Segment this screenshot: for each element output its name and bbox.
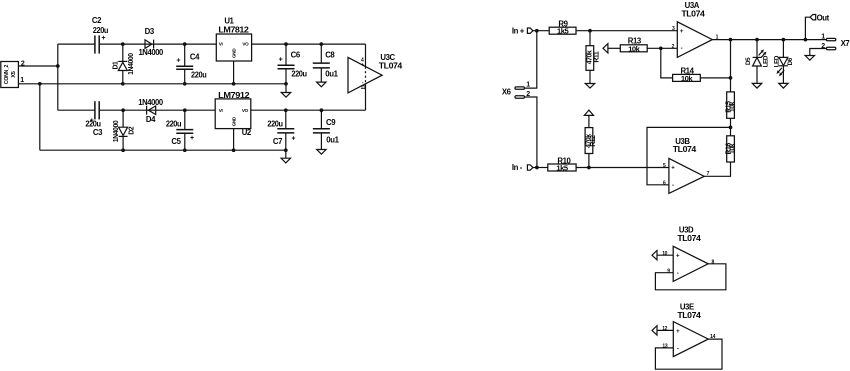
wire X6 pin2 down to In- node: [525, 97, 537, 168]
svg-text:1: 1: [526, 82, 530, 89]
svg-text:U2: U2: [242, 128, 252, 137]
svg-text:+: +: [291, 135, 295, 142]
resistor R11: [586, 31, 600, 71]
svg-text:TL074: TL074: [677, 234, 701, 243]
svg-text:TL074: TL074: [677, 311, 701, 320]
svg-text:C7: C7: [273, 137, 282, 146]
wire -12V rail: [251, 109, 366, 111]
wire R9 to U3A pin3: [576, 30, 677, 32]
svg-text:10k: 10k: [730, 101, 737, 112]
wire In+ to R9: [533, 30, 549, 32]
svg-text:VI: VI: [219, 42, 223, 47]
ground symbol D5: [752, 83, 761, 88]
svg-text:D5: D5: [745, 57, 752, 65]
diode D2: [113, 110, 135, 150]
svg-text:-: -: [681, 46, 683, 52]
op-amp U3C power unit: [348, 53, 403, 93]
svg-text:1: 1: [821, 34, 825, 41]
svg-text:+: +: [676, 329, 680, 335]
net arrow R13: [603, 44, 608, 53]
resistor R14: [673, 67, 701, 83]
svg-text:220u: 220u: [85, 119, 101, 128]
svg-text:-: -: [672, 183, 674, 189]
op-amp U3A: [672, 1, 719, 57]
connector X7 pin 2 pad: [826, 47, 835, 49]
svg-text:+: +: [361, 62, 364, 68]
svg-text:220u: 220u: [267, 119, 283, 128]
svg-text:VO: VO: [242, 108, 249, 113]
svg-text:-: -: [677, 271, 679, 277]
svg-text:12: 12: [662, 326, 667, 332]
connector X6 pin 1 pad: [515, 87, 525, 89]
hidden power pin dashed: [365, 67, 367, 84]
wire X5 pin2 to node: [19, 65, 58, 67]
junction C5 bottom: [183, 148, 187, 152]
svg-text:GND: GND: [231, 116, 236, 126]
wire ground rail upper: [40, 83, 286, 85]
junction R13/R14 node: [659, 46, 663, 50]
svg-text:1N4000: 1N4000: [138, 98, 164, 107]
svg-text:+: +: [176, 57, 180, 64]
junction D1 bottom: [121, 82, 125, 86]
ground symbol D6: [779, 83, 788, 88]
wire ground rail lower: [40, 149, 286, 151]
wire to Out port: [805, 17, 810, 39]
op-amp U3D: [662, 226, 714, 282]
svg-text:D4: D4: [146, 115, 156, 124]
svg-text:220u: 220u: [166, 119, 182, 128]
wire U3B pin6 feedback loop: [647, 127, 731, 184]
wire arrow to R13: [608, 47, 620, 49]
svg-text:Out: Out: [817, 14, 830, 23]
capacitor C3: [85, 101, 103, 137]
wire U3E pin13 feedback loop: [655, 339, 722, 369]
svg-text:1N4000: 1N4000: [113, 120, 120, 142]
junction gnd rail: [284, 82, 288, 86]
wire vertical ground link: [39, 84, 41, 150]
wire V- to op-amp pin 11: [365, 84, 367, 110]
svg-text:10k: 10k: [681, 74, 693, 83]
svg-text:In +: In +: [512, 26, 525, 35]
svg-text:+: +: [671, 166, 675, 172]
op-amp U3E: [662, 303, 715, 357]
svg-text:1: 1: [20, 77, 24, 84]
svg-text:C3: C3: [93, 128, 103, 137]
junction output/feedback: [729, 38, 733, 42]
ground symbol main upper: [281, 84, 290, 97]
svg-text:1N4000: 1N4000: [128, 53, 135, 75]
junction C9 top: [320, 108, 324, 112]
svg-text:5: 5: [663, 163, 666, 169]
svg-text:C2: C2: [92, 16, 102, 25]
svg-text:CONN_2: CONN_2: [4, 64, 10, 84]
junction D1 top: [121, 42, 125, 46]
svg-text:220u: 220u: [93, 26, 109, 35]
svg-text:TL074: TL074: [379, 61, 403, 70]
svg-text:9: 9: [667, 268, 670, 274]
svg-text:X5: X5: [11, 71, 17, 77]
svg-text:10k: 10k: [628, 44, 640, 53]
connector X7 pin 1 pad: [826, 38, 835, 40]
junction R14/R15: [729, 76, 733, 80]
svg-text:8: 8: [711, 260, 714, 266]
wire V+ to op-amp pin 4: [365, 44, 367, 67]
capacitor C5: [166, 110, 194, 150]
wire node down to R14: [661, 48, 673, 78]
wire X5 pin1 to ground node: [19, 83, 40, 85]
svg-text:TL074: TL074: [681, 10, 705, 19]
junction In- node: [535, 166, 539, 170]
svg-text:R12: R12: [590, 135, 597, 147]
wire negative input rail left: [58, 109, 95, 111]
svg-text:1N4000: 1N4000: [138, 48, 164, 57]
svg-text:D2: D2: [128, 126, 135, 135]
svg-text:GND: GND: [231, 48, 236, 58]
svg-text:LED: LED: [763, 55, 770, 67]
svg-text:13: 13: [662, 344, 667, 350]
wire feedback vertical: [730, 40, 732, 92]
junction C4 top: [183, 42, 187, 46]
wire top rail to U1: [100, 43, 217, 45]
wire arrow to U3E pin12: [657, 329, 673, 331]
resistor R9: [549, 20, 576, 36]
svg-text:+: +: [680, 29, 684, 35]
junction C8 top: [319, 42, 323, 46]
wire In+ node down to X6 pin1: [525, 31, 537, 88]
svg-text:6: 6: [663, 181, 666, 187]
svg-text:VO: VO: [242, 42, 249, 47]
wire +12V rail: [252, 43, 366, 45]
junction D2 bottom: [121, 148, 125, 152]
junction gnd rail lower: [284, 148, 288, 152]
wire vertical AC node: [57, 44, 59, 110]
svg-text:10k: 10k: [730, 143, 737, 154]
wire R14 to feedback node: [700, 77, 730, 79]
LED D5: [745, 40, 770, 84]
wire R13 to U3A pin2: [647, 47, 677, 49]
svg-text:D6: D6: [787, 57, 794, 65]
junction C5 top: [183, 108, 187, 112]
wire R16 to U3B output: [704, 162, 730, 176]
capacitor C2: [92, 16, 109, 53]
connector X5 (CONN_2): [1, 62, 19, 88]
svg-text:C9: C9: [326, 118, 336, 127]
wire R10 to U3B pin5: [576, 167, 669, 169]
ground symbol C8: [317, 68, 326, 87]
regulator U2 LM7912: [215, 91, 252, 137]
capacitor C4: [176, 44, 207, 84]
junction C6 top: [284, 42, 288, 46]
svg-text:LED: LED: [773, 55, 780, 67]
svg-text:220u: 220u: [191, 70, 207, 79]
diode D4: [138, 98, 164, 124]
junction Out/X7 node: [804, 38, 808, 42]
net arrow U3D pin10: [652, 251, 657, 260]
svg-text:10: 10: [662, 251, 667, 257]
svg-text:+: +: [190, 135, 194, 142]
svg-text:LM7812: LM7812: [218, 25, 249, 34]
wire arrow to U3D pin10: [657, 254, 673, 256]
junction U2 gnd: [232, 148, 236, 152]
junction U3B feedback node: [729, 126, 733, 130]
connector X6 pin 2 pad: [515, 96, 525, 98]
svg-text:0u1: 0u1: [326, 136, 339, 145]
wire negative rail to U2: [100, 109, 216, 111]
svg-text:D3: D3: [145, 27, 155, 36]
port In+: [512, 26, 533, 35]
wire U1 GND pin: [233, 61, 235, 84]
svg-text:1k5: 1k5: [557, 27, 569, 36]
ground symbol C9: [317, 133, 326, 154]
resistor R10: [548, 156, 576, 172]
junction In+ node: [535, 29, 539, 33]
svg-text:X6: X6: [502, 88, 512, 97]
junction R12 bottom: [587, 166, 591, 170]
capacitor C8: [313, 44, 339, 79]
wire U3A output rail: [712, 39, 826, 41]
junction D2 top: [121, 108, 125, 112]
diode D3: [138, 27, 164, 57]
op-amp U3B: [663, 137, 710, 194]
junction R11 top: [588, 29, 592, 33]
svg-text:C8: C8: [325, 51, 335, 60]
svg-text:X7: X7: [841, 39, 850, 48]
wire R15 to R16: [730, 118, 732, 136]
svg-text:C6: C6: [291, 51, 301, 60]
capacitor C9: [313, 110, 340, 145]
net arrow U3E pin12: [652, 326, 657, 335]
wire X7 pin2 to ground: [810, 49, 827, 56]
ground symbol X7: [805, 56, 814, 61]
diode D1: [113, 44, 135, 84]
svg-text:In -: In -: [512, 163, 523, 172]
svg-text:2: 2: [672, 44, 675, 50]
junction C7 top: [284, 108, 288, 112]
svg-text:220u: 220u: [291, 70, 307, 79]
svg-text:+: +: [676, 254, 680, 260]
svg-text:D1: D1: [113, 61, 120, 70]
junction U1 gnd: [232, 82, 236, 86]
wire In- to R10: [533, 167, 548, 169]
svg-text:-: -: [677, 346, 679, 352]
junction D5 top: [755, 38, 759, 42]
svg-text:U1: U1: [224, 16, 234, 25]
svg-text:+: +: [279, 57, 283, 64]
capacitor C7: [267, 110, 295, 150]
svg-text:+: +: [102, 35, 106, 42]
regulator U1 LM7812: [216, 16, 251, 61]
svg-text:TL074: TL074: [673, 145, 697, 154]
wire top rail left: [58, 43, 95, 45]
port Out: [810, 14, 830, 23]
junction pin2 node: [56, 64, 60, 68]
svg-text:R11: R11: [593, 51, 600, 63]
svg-text:C5: C5: [171, 137, 181, 146]
junction D6 top: [782, 38, 786, 42]
junction C4 bottom: [183, 82, 187, 86]
resistor R12: [585, 128, 597, 168]
resistor R16: [725, 136, 736, 162]
wire U2 GND pin: [233, 129, 235, 151]
resistor R15: [725, 92, 736, 118]
junction pin1 node: [38, 82, 42, 86]
LED D6: [773, 40, 794, 84]
svg-text:0u1: 0u1: [325, 70, 338, 79]
svg-text:VI: VI: [219, 108, 223, 113]
svg-text:11: 11: [360, 85, 365, 91]
ground symbol main lower: [281, 150, 290, 163]
resistor R13: [620, 37, 647, 54]
svg-text:C4: C4: [190, 53, 200, 62]
capacitor C6: [278, 44, 308, 84]
svg-text:1k5: 1k5: [556, 164, 568, 173]
port In-: [512, 163, 533, 172]
ground symbol R11: [585, 70, 594, 88]
net arrow R12: [584, 110, 593, 128]
svg-text:LM7912: LM7912: [218, 91, 250, 100]
wire U3D pin9 feedback loop: [655, 264, 726, 290]
